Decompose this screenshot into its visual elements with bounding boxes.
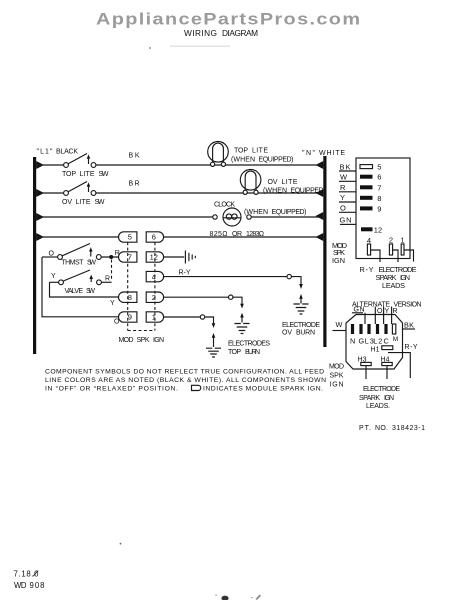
svg-text:R: R: [105, 275, 110, 282]
svg-text:318423-1: 318423-1: [392, 425, 425, 432]
svg-text:R-Y: R-Y: [179, 269, 191, 276]
svg-text:(WHEN: (WHEN: [231, 157, 255, 164]
svg-text:IGN: IGN: [330, 382, 344, 389]
svg-text:EQUIPPED): EQUIPPED): [291, 187, 326, 194]
svg-text:WHITE: WHITE: [319, 150, 345, 157]
svg-text:SPARK: SPARK: [359, 395, 380, 402]
svg-text:VALVE: VALVE: [65, 288, 84, 295]
svg-text:4: 4: [367, 236, 371, 245]
svg-text:O: O: [114, 318, 120, 325]
svg-text:Y: Y: [340, 193, 345, 202]
svg-text:ELECTRODE: ELECTRODE: [363, 386, 400, 393]
svg-text:WIRING: WIRING: [184, 28, 217, 38]
svg-text:PT.: PT.: [359, 425, 371, 432]
svg-text:W: W: [340, 173, 348, 182]
svg-text:G: G: [359, 337, 365, 346]
svg-text:GN: GN: [340, 216, 352, 225]
svg-text:L2: L2: [373, 337, 382, 346]
svg-text:8: 8: [377, 194, 381, 203]
svg-text:VERSION: VERSION: [394, 302, 422, 309]
svg-text:OV: OV: [268, 179, 278, 186]
svg-text:8: 8: [128, 293, 132, 302]
svg-text:W: W: [336, 320, 343, 329]
svg-text:IGN: IGN: [332, 256, 345, 265]
svg-text:INDICATES MODULE SPARK IGN.: INDICATES MODULE SPARK IGN.: [203, 386, 323, 393]
svg-text:R-Y: R-Y: [360, 265, 374, 274]
svg-text:H1: H1: [371, 347, 380, 354]
svg-text:EQUIPPED): EQUIPPED): [259, 157, 294, 164]
svg-text:SW: SW: [86, 288, 95, 295]
svg-text:6: 6: [377, 173, 381, 182]
svg-text:IGN: IGN: [153, 337, 164, 344]
svg-text:C: C: [384, 337, 389, 346]
svg-text:9: 9: [128, 313, 132, 322]
svg-text:LITE: LITE: [76, 199, 91, 206]
svg-text:7: 7: [377, 183, 381, 192]
svg-text:LEADS.: LEADS.: [366, 403, 390, 410]
svg-text:BLACK: BLACK: [56, 149, 78, 156]
svg-text:5: 5: [377, 163, 381, 172]
svg-text:N: N: [350, 337, 355, 346]
svg-text:O: O: [49, 250, 55, 257]
svg-text:LITE: LITE: [282, 179, 298, 186]
svg-text:SPK: SPK: [330, 373, 344, 380]
svg-text:MOD: MOD: [329, 364, 344, 371]
svg-text:TOP: TOP: [62, 171, 76, 178]
svg-text:BK: BK: [129, 153, 140, 160]
svg-text:SPK: SPK: [137, 337, 150, 344]
svg-text:EQUIPPED): EQUIPPED): [272, 209, 307, 216]
svg-text:SW: SW: [87, 259, 96, 266]
svg-text:LEADS: LEADS: [382, 281, 405, 290]
svg-text:"L1": "L1": [37, 149, 54, 156]
svg-text:6: 6: [152, 233, 156, 242]
svg-text:9: 9: [377, 204, 381, 213]
svg-text:COMPONENT SYMBOLS DO NOT REFLE: COMPONENT SYMBOLS DO NOT REFLECT TRUE CO…: [45, 369, 324, 376]
svg-text:LITE: LITE: [80, 171, 95, 178]
svg-text:ELECTRODES: ELECTRODES: [228, 341, 270, 348]
svg-text:(WHEN: (WHEN: [263, 187, 287, 194]
svg-text:12: 12: [374, 225, 382, 234]
svg-text:M: M: [393, 336, 398, 343]
svg-text:O: O: [340, 204, 346, 213]
svg-text:MOD: MOD: [119, 337, 134, 344]
svg-text:OV: OV: [62, 199, 72, 206]
svg-text:R-Y: R-Y: [405, 344, 418, 351]
svg-text:R: R: [340, 183, 346, 192]
svg-text:BK: BK: [340, 162, 351, 171]
svg-text:1: 1: [400, 236, 404, 245]
svg-text:TOP: TOP: [228, 349, 241, 356]
svg-text:"N": "N": [302, 150, 316, 157]
svg-text:TOP: TOP: [234, 148, 248, 155]
svg-text:CLOCK: CLOCK: [214, 202, 235, 209]
svg-text:SW: SW: [99, 171, 109, 178]
svg-text:NO.: NO.: [375, 425, 388, 432]
svg-text:7: 7: [128, 253, 132, 262]
svg-text:WD: WD: [14, 581, 27, 590]
svg-text:IGN: IGN: [384, 395, 394, 402]
svg-text:Y: Y: [110, 300, 115, 307]
svg-text:ELECTRODE: ELECTRODE: [282, 322, 320, 329]
svg-text:BK: BK: [404, 321, 414, 330]
svg-text:R: R: [115, 250, 120, 257]
svg-text:Y: Y: [51, 273, 56, 280]
svg-text:LITE: LITE: [252, 148, 268, 155]
svg-text:IN “OFF” OR “RELAXED” POSITION: IN “OFF” OR “RELAXED” POSITION.: [45, 386, 178, 393]
svg-text:12: 12: [150, 253, 158, 262]
svg-text:BURN: BURN: [245, 349, 260, 356]
svg-text:(WHEN: (WHEN: [244, 209, 268, 216]
svg-text:AppliancePartsPros.com: AppliancePartsPros.com: [96, 10, 360, 28]
svg-text:LINE COLORS ARE AS NOTED (BLAC: LINE COLORS ARE AS NOTED (BLACK & WHITE)…: [45, 377, 326, 384]
svg-text:2: 2: [389, 236, 393, 245]
svg-text:BR: BR: [129, 181, 140, 188]
svg-text:BURN: BURN: [296, 330, 315, 337]
svg-text:SW: SW: [95, 199, 105, 206]
svg-text:THMST: THMST: [61, 259, 84, 266]
svg-text:908: 908: [30, 581, 45, 590]
svg-text:OV: OV: [282, 330, 292, 337]
svg-text:DIAGRAM: DIAGRAM: [222, 28, 258, 38]
svg-text:5: 5: [128, 233, 132, 242]
